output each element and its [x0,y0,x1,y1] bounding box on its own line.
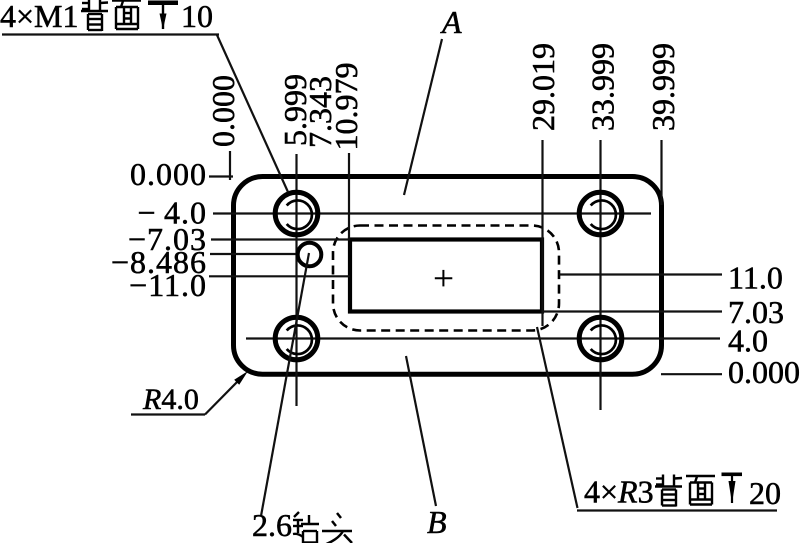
ordinate line y=0.000 bottom [661,373,722,375]
svg-text:A: A [440,4,462,40]
depth symbol of M1 note [148,1,178,30]
tapped hole M1 top-left, outer circle [275,192,318,235]
center cross mark of pocket [435,270,453,287]
svg-text:39.999: 39.999 [645,43,681,131]
svg-text:4×R3: 4×R3 [584,474,654,510]
svg-text:B: B [427,504,447,540]
tapped hole M1 bottom-left, outer circle [275,317,318,360]
svg-text:10.979: 10.979 [328,63,364,151]
dashed pocket outline 4xR3 (hidden contour) [333,226,559,331]
small drill hole 2.6 [298,243,322,267]
thread arc bottom-left hole [287,325,312,354]
svg-text:10: 10 [181,0,213,34]
leader of view label B [406,356,436,506]
ordinate line x=10.979 [348,153,350,240]
ordinate line y=4.0 (bottom holes centerline) [246,337,720,339]
ordinate line x=33.999 (right holes centerline) [599,140,601,410]
ordinate line y=7.03 right [542,310,722,312]
underline of R4.0 note [131,413,205,415]
note 2.6 drill hanzi zuan [293,512,319,543]
ordinate line y=-7.03 [211,238,350,240]
ordinate line y=11.0 right [560,273,723,275]
note 4xM1 hanzi mian [112,1,141,30]
ordinate line y=-8.486 (small hole centerline) [210,253,298,255]
svg-text:−11.0: −11.0 [129,267,207,303]
svg-text:4×M1: 4×M1 [0,0,79,34]
underline of R3 note [577,509,777,511]
ordinate line x=29.019 [541,140,543,326]
ordinate line y=0.000 top [209,175,233,177]
leader of R4.0 note [205,378,241,415]
thread arc top-right hole [591,200,616,229]
leader from small hole to 2.6 drill note [261,253,309,516]
thread arc bottom-right hole [591,325,616,354]
tapped hole M1 bottom-right, outer circle [579,317,622,360]
note 2.6 drill hanzi tou [322,513,352,543]
arrow head of R4.0 leader [234,371,248,385]
leader from M1 note to top-left hole [217,35,288,192]
ordinate line x=5.999 (left holes centerline) [295,154,297,406]
svg-text:29.019: 29.019 [525,43,561,131]
tapped hole M1 top-right, outer circle [579,192,622,235]
note 4xM1 hanzi bei [81,0,108,31]
note 4xR3 hanzi mian [686,476,715,505]
thread arc top-left hole [287,200,312,229]
leader from dashed pocket to R3 note [537,327,578,508]
ordinate line y=-4.0 (top holes centerline) [213,212,651,214]
ordinate line x=0.000 [229,151,231,180]
ordinate line x=39.999 (right edge) [660,140,662,205]
svg-text:0.000: 0.000 [205,75,241,147]
leader of view label A [404,39,442,195]
ordinate line y=-11.0 (horizontal center) [209,275,350,277]
svg-text:0.000: 0.000 [130,156,207,192]
note 4xR3 hanzi bei [655,475,682,507]
underline of M1 note [2,33,219,35]
svg-text:0.000: 0.000 [728,354,800,390]
svg-text:33.999: 33.999 [585,43,621,131]
svg-text:R4.0: R4.0 [142,383,199,416]
svg-text:20: 20 [749,475,781,511]
svg-text:11.0: 11.0 [728,259,783,295]
depth symbol of R3 note [722,473,743,504]
plate outline (rounded rectangle R4.0 corners) [234,177,662,375]
svg-text:2.6: 2.6 [252,507,292,543]
inner pocket rectangle [350,240,542,312]
